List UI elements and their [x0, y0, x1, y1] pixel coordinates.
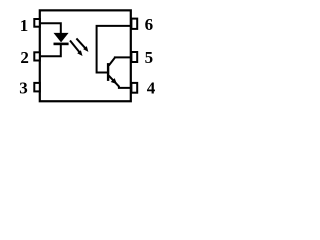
- svg-text:4: 4: [147, 78, 156, 97]
- svg-text:1: 1: [20, 16, 29, 35]
- light arrow 1 head: [77, 50, 82, 56]
- svg-text:6: 6: [145, 15, 154, 34]
- transistor Q1 emitter arrowhead: [111, 78, 117, 84]
- package outline U1: [40, 10, 131, 101]
- pin 2 box: [34, 52, 40, 60]
- wire pin6 to base: [97, 26, 131, 73]
- transistor Q1 collector wire to pin5: [109, 57, 131, 65]
- pin 5 box: [131, 52, 137, 62]
- pin 4 box: [131, 83, 137, 93]
- wire pin1 to LED anode: [41, 23, 61, 33]
- svg-text:3: 3: [19, 78, 28, 97]
- transistor Q1 emitter wire to pin4: [109, 76, 131, 88]
- background: [0, 0, 160, 112]
- wire LED cathode to pin2: [41, 45, 61, 57]
- transistor Q1 base bar: [107, 63, 109, 81]
- LED D1 anode triangle: [54, 33, 69, 43]
- LED D1 cathode bar: [54, 43, 69, 46]
- light arrow 2 shaft: [76, 38, 85, 48]
- svg-text:2: 2: [20, 48, 29, 67]
- pin 1 box: [34, 19, 40, 27]
- light arrow 1 shaft: [70, 41, 80, 53]
- pin 3 box: [34, 83, 40, 92]
- pin 6 box: [131, 19, 137, 29]
- light arrow 2 head: [83, 46, 88, 52]
- svg-text:5: 5: [145, 48, 154, 67]
